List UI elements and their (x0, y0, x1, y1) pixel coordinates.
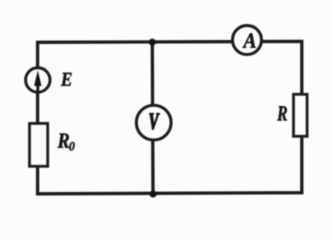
label R0 (58, 134, 70, 148)
label A (ammeter letter) (242, 33, 255, 47)
wire outer loop (38, 41, 302, 193)
resistor R (294, 94, 308, 136)
label E (61, 73, 72, 86)
label V (voltmeter letter) (149, 113, 159, 129)
resistor R0 (30, 123, 48, 166)
node junction top (149, 39, 156, 46)
voltmeter V (136, 105, 171, 140)
label R (277, 106, 287, 120)
node junction bottom (149, 190, 156, 197)
source E arrow (34, 70, 41, 91)
source E (26, 68, 50, 92)
ammeter A (233, 26, 262, 55)
wire middle branch (151, 42, 155, 194)
